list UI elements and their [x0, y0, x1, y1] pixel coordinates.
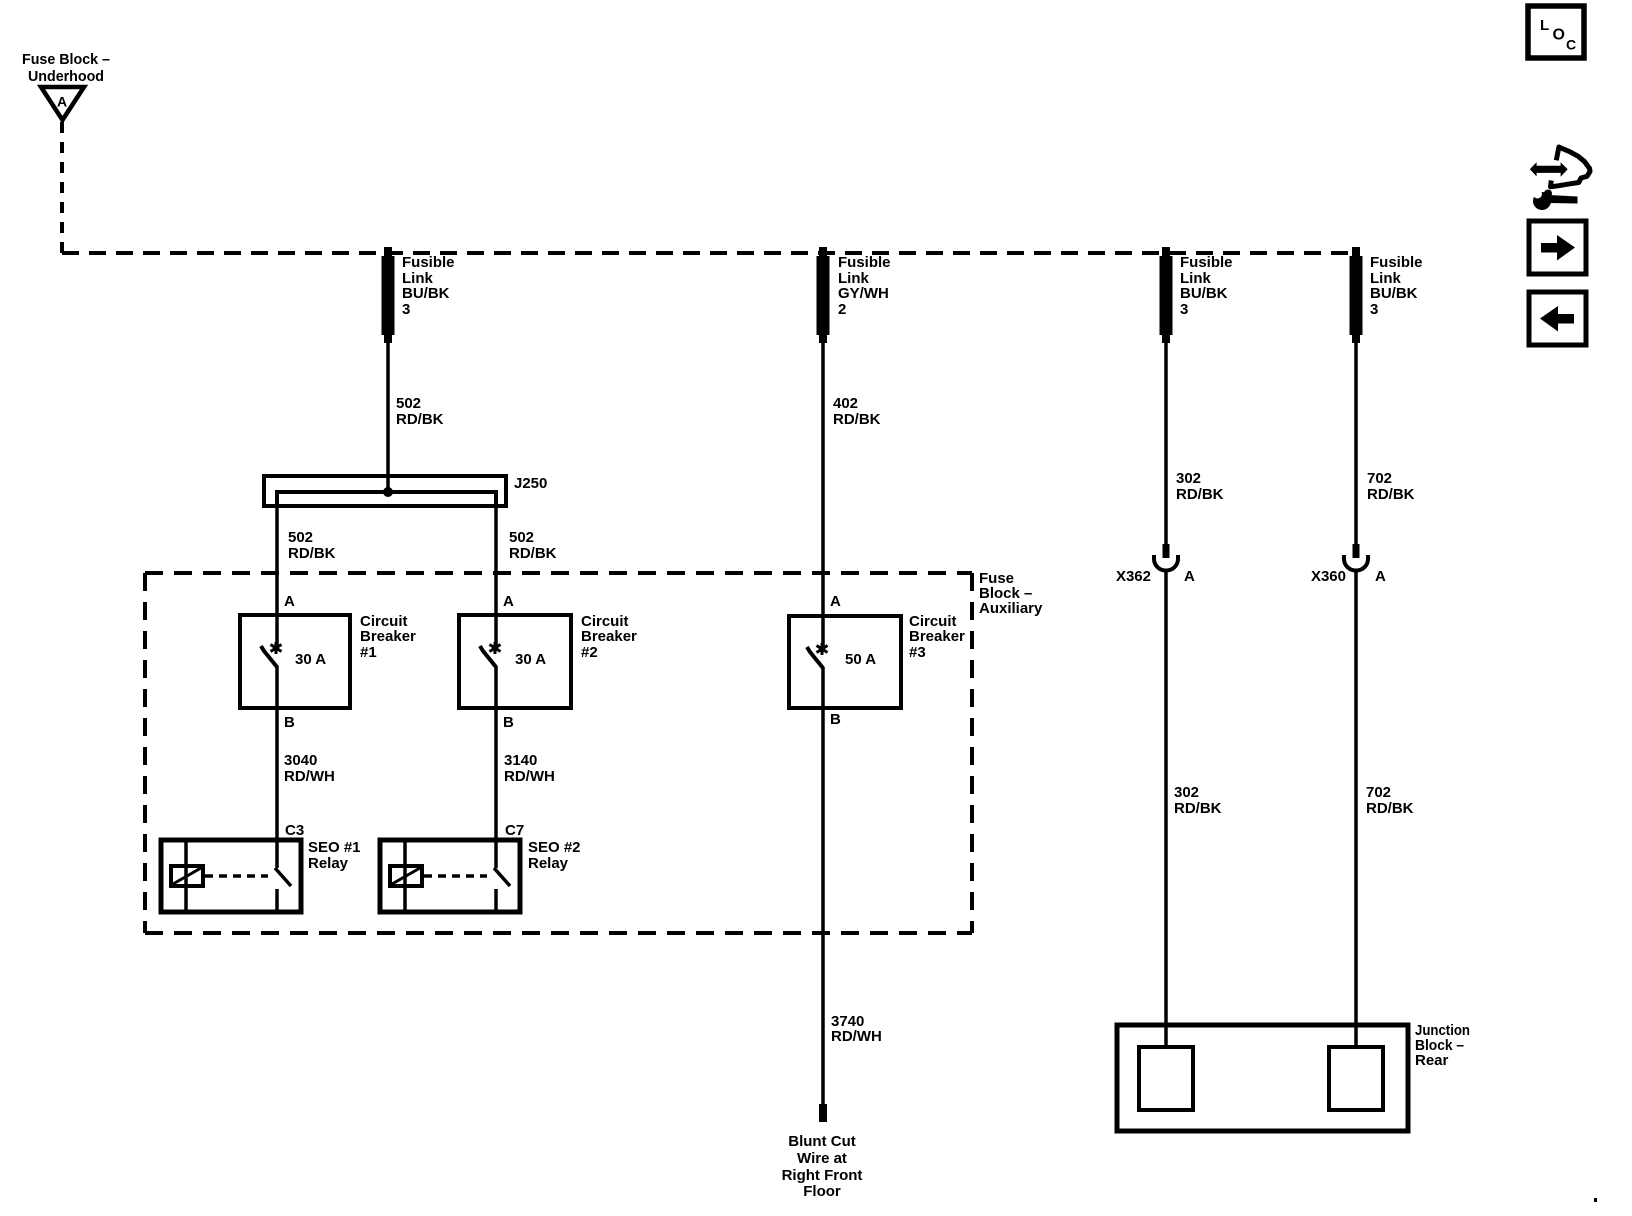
svg-text:RD/BK: RD/BK — [1367, 486, 1415, 503]
label: 3140 RD/WH — [504, 752, 555, 785]
circuit breaker #1 box — [240, 615, 350, 708]
svg-text:Floor: Floor — [803, 1183, 841, 1200]
label: Fuse Block - Auxiliary — [979, 570, 1043, 617]
label: 702 RD/BK (lower) — [1366, 784, 1414, 817]
svg-text:X362: X362 — [1116, 568, 1151, 585]
svg-text:B: B — [830, 711, 841, 728]
junction block rear box — [1117, 1025, 1408, 1131]
svg-text:Auxiliary: Auxiliary — [979, 600, 1043, 617]
svg-text:3: 3 — [1370, 301, 1378, 318]
junction block terminal 1 — [1139, 1047, 1193, 1110]
label: 402 RD/BK — [833, 395, 881, 428]
fusible link 2 GY/WH — [817, 247, 830, 343]
icon: next arrow button — [1529, 221, 1586, 274]
SEO #1 relay box — [161, 840, 301, 912]
SEO #2 relay switch blade — [494, 868, 510, 886]
SEO #2 relay actuating dashed link — [424, 874, 487, 878]
svg-text:RD/WH: RD/WH — [831, 1028, 882, 1045]
SEO #2 relay coil — [390, 866, 422, 886]
breaker 3 switch blade — [807, 647, 823, 668]
wire 402 RD/BK (link 2 to breaker 3) — [821, 340, 825, 646]
svg-text:A: A — [1375, 568, 1386, 585]
svg-text:Fusible: Fusible — [1180, 254, 1233, 271]
label: Junction Block - Rear — [1415, 1022, 1470, 1069]
svg-text:502: 502 — [288, 529, 313, 546]
svg-text:A: A — [830, 593, 841, 610]
wire 3040 RD/WH (breaker 1 to SEO #1 relay) — [275, 708, 279, 868]
svg-text:Relay: Relay — [308, 855, 349, 872]
breaker 1 switch blade — [261, 646, 277, 667]
svg-text:B: B — [503, 714, 514, 731]
wire 302 RD/BK (X362 to junction block) — [1164, 570, 1168, 1047]
fusible link 3 BU/BK — [1160, 247, 1173, 343]
svg-text:502: 502 — [509, 529, 534, 546]
wire (breaker 1 blade to pin B) — [275, 666, 279, 708]
connector triangle A (Fuse Block - Underhood) — [41, 87, 84, 120]
label: SEO #2 Relay — [528, 839, 581, 872]
svg-text:702: 702 — [1367, 470, 1392, 487]
svg-text:BU/BK: BU/BK — [1370, 285, 1418, 302]
wire 302 RD/BK (link 3 to X362) — [1164, 340, 1168, 545]
svg-text:B: B — [284, 714, 295, 731]
svg-text:3140: 3140 — [504, 752, 537, 769]
wire (breaker 2 blade to pin B) — [494, 666, 498, 708]
label: Fusible Link BU/BK 3 (first) — [402, 254, 455, 318]
svg-text:L: L — [1540, 17, 1549, 34]
svg-text:RD/WH: RD/WH — [284, 768, 335, 785]
wire 502 RD/BK (J250 to breaker 2 pin A) — [494, 506, 498, 645]
wire 702 RD/BK (X360 to junction block) — [1354, 570, 1358, 1047]
svg-text:C3: C3 — [285, 822, 304, 839]
label: 302 RD/BK (upper) — [1176, 470, 1224, 503]
svg-text:BU/BK: BU/BK — [402, 285, 450, 302]
svg-text:Underhood: Underhood — [28, 68, 104, 85]
svg-text:50 A: 50 A — [845, 651, 876, 668]
svg-text:RD/BK: RD/BK — [1174, 800, 1222, 817]
wire 502 RD/BK (J250 to breaker 1 pin A) — [275, 506, 279, 645]
fusible link 1 BU/BK — [382, 247, 395, 343]
label: Circuit Breaker #3 — [909, 613, 965, 661]
SEO #1 relay lower contact stub — [275, 889, 279, 912]
svg-text:SEO #1: SEO #1 — [308, 839, 361, 856]
icon: routing/tool pictogram — [1530, 147, 1590, 210]
svg-text:2: 2 — [838, 301, 846, 318]
svg-text:Rear: Rear — [1415, 1052, 1449, 1069]
svg-text:C7: C7 — [505, 822, 524, 839]
svg-text:3040: 3040 — [284, 752, 317, 769]
svg-text:30 A: 30 A — [515, 651, 546, 668]
svg-text:O: O — [1553, 27, 1565, 44]
label: Fusible Link GY/WH 2 — [838, 254, 891, 318]
svg-text:Relay: Relay — [528, 855, 569, 872]
label: 3040 RD/WH — [284, 752, 335, 785]
SEO #1 relay switch blade — [275, 868, 291, 886]
svg-text:RD/BK: RD/BK — [1366, 800, 1414, 817]
svg-text:X360: X360 — [1311, 568, 1346, 585]
svg-text:Breaker: Breaker — [909, 628, 965, 645]
circuit breaker #3 box — [789, 616, 901, 708]
svg-text:A: A — [1184, 568, 1195, 585]
label: Fusible Link BU/BK 3 (fourth) — [1370, 254, 1423, 318]
label: 502 RD/BK (upper) — [396, 395, 444, 428]
svg-text:302: 302 — [1176, 470, 1201, 487]
svg-text:A: A — [57, 94, 67, 110]
svg-text:C: C — [1566, 37, 1576, 53]
fusible link 4 BU/BK — [1350, 247, 1363, 343]
breaker 1 contact asterisk — [271, 642, 282, 654]
breaker 2 contact asterisk — [490, 642, 501, 654]
icon: LOC box — [1528, 6, 1584, 58]
connector X360 pin A — [1344, 544, 1368, 571]
svg-text:#1: #1 — [360, 644, 377, 661]
icon: back arrow button — [1529, 292, 1586, 345]
label: Circuit Breaker #2 — [581, 613, 637, 661]
label: 702 RD/BK (upper) — [1367, 470, 1415, 503]
breaker 3 contact asterisk — [817, 643, 828, 655]
fuse block auxiliary dashed boundary — [145, 573, 972, 933]
svg-text:RD/WH: RD/WH — [504, 768, 555, 785]
SEO #2 relay lower contact stub — [494, 889, 498, 912]
svg-text:#2: #2 — [581, 644, 598, 661]
breaker 2 switch blade — [480, 646, 496, 667]
svg-text:Breaker: Breaker — [581, 628, 637, 645]
label: Fuse Block - Underhood — [22, 51, 110, 85]
svg-text:702: 702 — [1366, 784, 1391, 801]
label: 3740 RD/WH — [831, 1013, 882, 1045]
svg-text:A: A — [284, 593, 295, 610]
label: SEO #1 Relay — [308, 839, 361, 872]
SEO #1 relay actuating dashed link — [205, 874, 268, 878]
svg-text:402: 402 — [833, 395, 858, 412]
svg-text:302: 302 — [1174, 784, 1199, 801]
svg-text:Fusible: Fusible — [402, 254, 455, 271]
splice bus J250 — [264, 476, 506, 506]
svg-text:3: 3 — [1180, 301, 1188, 318]
svg-text:J250: J250 — [514, 475, 547, 492]
svg-text:GY/WH: GY/WH — [838, 285, 889, 302]
svg-text:RD/BK: RD/BK — [396, 411, 444, 428]
svg-text:Fusible: Fusible — [1370, 254, 1423, 271]
blunt cut wire end mark — [819, 1104, 827, 1122]
svg-text:SEO #2: SEO #2 — [528, 839, 581, 856]
wire: dashed vertical from triangle A — [60, 122, 64, 253]
svg-text:502: 502 — [396, 395, 421, 412]
label: 502 RD/BK (lower left) — [288, 529, 336, 562]
svg-text:30 A: 30 A — [295, 651, 326, 668]
svg-text:Breaker: Breaker — [360, 628, 416, 645]
svg-text:RD/BK: RD/BK — [1176, 486, 1224, 503]
wire 3140 RD/WH (breaker 2 to SEO #2 relay) — [494, 708, 498, 868]
svg-text:RD/BK: RD/BK — [509, 545, 557, 562]
svg-text:Right Front: Right Front — [782, 1167, 863, 1184]
svg-text:Wire at: Wire at — [797, 1150, 847, 1167]
svg-text:Blunt Cut: Blunt Cut — [788, 1133, 855, 1150]
svg-text:A: A — [503, 593, 514, 610]
wire 502 RD/BK (link 1 to J250) — [386, 340, 390, 492]
label: 502 RD/BK (lower right) — [509, 529, 557, 562]
wire (breaker 3 blade to pin B) — [821, 667, 825, 708]
svg-text:3: 3 — [402, 301, 410, 318]
circuit breaker #2 box — [459, 615, 571, 708]
svg-text:RD/BK: RD/BK — [833, 411, 881, 428]
wire 3740 RD/WH (breaker 3 to blunt cut) — [821, 708, 825, 1104]
connector X362 pin A — [1154, 544, 1178, 571]
label: Fusible Link BU/BK 3 (third) — [1180, 254, 1233, 318]
wire: dashed horizontal power feed — [62, 251, 1356, 255]
label: Circuit Breaker #1 — [360, 613, 416, 661]
label: Blunt Cut Wire at Right Front Floor — [782, 1133, 863, 1200]
junction block terminal 2 — [1329, 1047, 1383, 1110]
svg-text:Fuse Block –: Fuse Block – — [22, 51, 110, 68]
wire 702 RD/BK (link 4 to X360) — [1354, 340, 1358, 545]
svg-text:BU/BK: BU/BK — [1180, 285, 1228, 302]
svg-text:Fusible: Fusible — [838, 254, 891, 271]
label: 302 RD/BK (lower) — [1174, 784, 1222, 817]
period mark bottom right — [1594, 1198, 1597, 1202]
SEO #2 relay box — [380, 840, 520, 912]
svg-text:#3: #3 — [909, 644, 926, 661]
SEO #1 relay coil — [171, 866, 203, 886]
svg-text:RD/BK: RD/BK — [288, 545, 336, 562]
